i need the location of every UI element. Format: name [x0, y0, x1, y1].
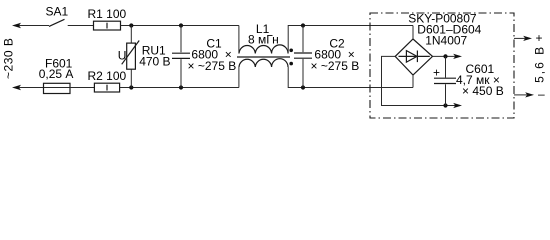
resistor R1 100: [94, 21, 121, 30]
wire R2 to choke bottom: [120, 87, 239, 89]
output minus lead: [514, 94, 527, 96]
fuse F601 0.25A: [44, 87, 71, 89]
output plus lead: [514, 37, 525, 39]
wire choke right top stub: [288, 26, 413, 54]
wire top AC into bridge: [412, 26, 414, 40]
node junction C2 bottom: [301, 85, 305, 89]
capacitor C2 6800x275V: [302, 26, 304, 53]
wire RU1 top lead: [130, 26, 132, 44]
svg-text:× ~275 В: × ~275 В: [188, 59, 237, 73]
switch SA1: [49, 19, 65, 26]
node junction C2 top: [301, 23, 305, 27]
svg-text:U: U: [118, 48, 127, 62]
wire bridge right corner plus rail: [433, 55, 460, 57]
svg-text:R1 100: R1 100: [88, 7, 127, 21]
wire choke left bottom stub: [238, 67, 240, 88]
node plus rail junction: [443, 54, 447, 58]
svg-text:× 450 В: × 450 В: [462, 84, 504, 98]
node polarity dot bottom: [289, 62, 293, 66]
winding bottom: [239, 59, 288, 67]
bridge rectifier D601-D604: [395, 39, 432, 75]
diode symbol inside bridge: [399, 55, 430, 57]
capacitor C1 6800x275V: [180, 26, 182, 53]
wire top-left to switch: [19, 25, 49, 27]
svg-text:× ~275 В: × ~275 В: [311, 59, 360, 73]
svg-text:+: +: [433, 66, 440, 80]
svg-text:0,25 А: 0,25 А: [39, 67, 74, 81]
svg-text:~230 В: ~230 В: [2, 38, 16, 79]
plus rail arrow: [453, 54, 462, 59]
node input arrow top (~230V line 1): [12, 23, 21, 28]
svg-text:8 мГн: 8 мГн: [248, 33, 279, 47]
svg-text:SA1: SA1: [46, 5, 69, 19]
wire choke right bottom stub: [288, 67, 413, 88]
svg-text:1N4007: 1N4007: [425, 33, 467, 47]
wire bridge bottom corner to AC: [412, 75, 414, 88]
node junction C1 bottom: [179, 85, 183, 89]
wire fuse to R2: [70, 87, 94, 89]
core: [237, 56, 290, 58]
node polarity dot top: [289, 49, 293, 53]
wire R1 to choke: [121, 25, 239, 27]
varistor RU1 470V: [127, 43, 136, 69]
svg-text:–: –: [538, 87, 545, 101]
svg-text:+: +: [536, 31, 543, 45]
svg-text:5,6 В: 5,6 В: [533, 45, 547, 83]
wire bridge left corner to minus rail: [382, 56, 461, 105]
node minus rail junction: [443, 103, 447, 107]
node junction C1 top: [179, 23, 183, 27]
resistor R2 100: [94, 83, 119, 92]
minus rail arrow: [453, 103, 462, 108]
node junction R1/RU1 top: [129, 23, 133, 27]
module box SKY-P00807 (dash-dot frame): [370, 13, 514, 118]
node input arrow bottom (~230V line 2): [12, 85, 21, 90]
winding top: [239, 45, 288, 54]
wire choke left top stub: [238, 26, 240, 54]
capacitor C601 4.7uF 450V: [445, 56, 447, 77]
wire bottom-left to fuse: [19, 87, 44, 89]
node junction R2/RU1 bottom: [129, 85, 133, 89]
svg-text:R2 100: R2 100: [88, 69, 127, 83]
wire RU1 bottom lead: [130, 69, 132, 87]
wire switch to R1: [68, 25, 94, 27]
svg-text:470 В: 470 В: [139, 55, 170, 69]
